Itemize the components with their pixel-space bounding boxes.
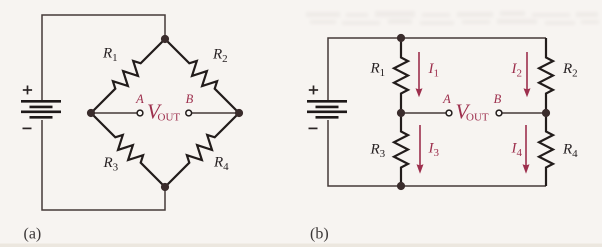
node A-row left (b): [397, 109, 405, 117]
battery minus terminal label B1 (b): [309, 127, 318, 129]
node right (a): [235, 109, 243, 117]
resistor R4 (b): [539, 113, 553, 186]
wire battery positive to top rail (b): [328, 38, 546, 100]
wire left node to terminal A (a): [91, 112, 137, 114]
current arrow I1: [418, 52, 420, 90]
resistor R4 (a): [165, 113, 239, 187]
svg-text:OUT: OUT: [158, 112, 181, 124]
node top (a): [161, 35, 169, 43]
current arrow I2: [526, 52, 528, 90]
battery plus terminal label B1 (a): [23, 86, 32, 95]
svg-text:B: B: [186, 92, 194, 106]
node bottom rail junction (b): [397, 182, 405, 190]
terminal A (b): [446, 110, 452, 116]
terminal B (a): [186, 110, 192, 116]
resistor R3 (b): [394, 113, 408, 186]
terminal B (b): [496, 110, 502, 116]
svg-text:OUT: OUT: [466, 112, 489, 124]
node bottom (a): [161, 183, 169, 191]
svg-text:(b): (b): [310, 225, 329, 242]
battery B1 (b): [307, 101, 347, 117]
current arrow I3: [419, 125, 421, 166]
resistor R2 (a): [165, 39, 239, 113]
svg-text:A: A: [135, 92, 144, 106]
wire battery positive to top node (a): [42, 15, 165, 100]
node left (a): [87, 109, 95, 117]
resistor R3 (a): [91, 113, 165, 187]
resistor R1 (a): [91, 39, 165, 113]
node B-row right (b): [542, 109, 550, 117]
page edge strip: [0, 244, 602, 247]
terminal A (a): [137, 110, 143, 116]
battery plus terminal label B1 (b): [309, 86, 318, 95]
wire terminal B to right node (a): [192, 112, 239, 114]
wire bottom rail to battery negative (b): [328, 120, 546, 186]
battery B1 (a): [21, 101, 61, 117]
current arrow I4: [525, 125, 527, 166]
wire node B-row right (b): [502, 112, 546, 114]
wire bottom node to battery negative (a): [42, 120, 165, 210]
resistor R1 (b): [394, 38, 408, 113]
svg-text:A: A: [442, 92, 451, 106]
node top rail junction (b): [397, 34, 405, 42]
svg-text:(a): (a): [24, 225, 42, 242]
wire node A-row left (b): [401, 112, 446, 114]
battery minus terminal label B1 (a): [23, 127, 32, 129]
svg-text:B: B: [494, 92, 502, 106]
resistor R2 (b): [539, 38, 553, 113]
